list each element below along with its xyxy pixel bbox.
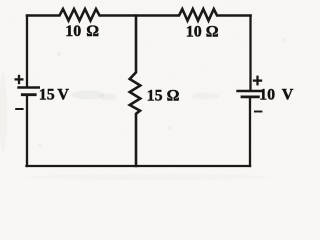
svg-text:10 Ω: 10 Ω xyxy=(65,23,99,40)
svg-text:15 Ω: 15 Ω xyxy=(147,87,180,104)
svg-text:15 V: 15 V xyxy=(39,87,70,104)
svg-text:10 V: 10 V xyxy=(259,86,294,103)
svg-text:10 Ω: 10 Ω xyxy=(186,23,219,40)
